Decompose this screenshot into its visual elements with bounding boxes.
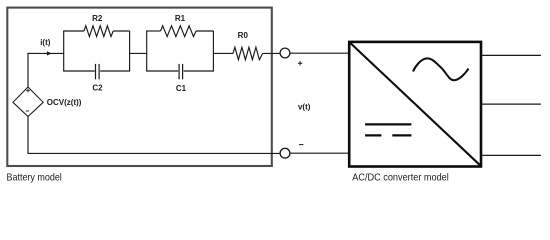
RC block 1 left edge wire: [63, 31, 65, 71]
RC block 1 top wire segments: [63, 30, 84, 32]
node: positive terminal circle: [280, 48, 290, 58]
resistor R1: [161, 26, 197, 37]
resistor R0: [233, 47, 263, 60]
wire: vertical from node A down to OCV source top: [27, 53, 29, 87]
capacitor C2: [96, 64, 100, 79]
AC/DC converter box U1: [349, 42, 481, 167]
svg-text:v(t): v(t): [298, 102, 311, 111]
label - at terminal: [299, 144, 303, 146]
capacitor C1: [179, 64, 183, 79]
label + at terminal: [298, 61, 302, 65]
svg-text:AC/DC converter model: AC/DC converter model: [352, 173, 449, 184]
wire: converter output line 1: [482, 54, 541, 56]
RC block 2 right edge wire: [212, 31, 214, 71]
RC block 2 bottom wire segments: [146, 70, 178, 72]
svg-text:C2: C2: [92, 83, 103, 92]
svg-text:R1: R1: [175, 14, 186, 23]
node: negative terminal circle: [280, 148, 290, 158]
RC block 2 left edge wire: [146, 31, 148, 71]
svg-text:Battery model: Battery model: [7, 173, 62, 184]
wire: bottom return rail to negative terminal: [28, 152, 281, 154]
svg-text:C1: C1: [176, 84, 187, 93]
wire: converter output line 2: [482, 103, 541, 105]
wire: positive terminal to converter: [290, 52, 349, 54]
RC block 1 bottom wire segments: [63, 70, 95, 72]
svg-text:R2: R2: [92, 14, 103, 23]
AC sine symbol: [413, 58, 469, 80]
wire: RC2 to R0: [213, 52, 233, 54]
wire: negative terminal to converter: [290, 152, 349, 154]
wire: RC1 to RC2: [130, 52, 147, 54]
diagonal divider of converter: [349, 42, 481, 166]
RC block 1 right edge wire: [129, 31, 131, 71]
DC symbol solid line: [365, 123, 411, 125]
svg-text:OCV(z(t)): OCV(z(t)): [47, 98, 82, 107]
battery model outer box: [7, 8, 272, 166]
DC symbol dashed line: [365, 134, 381, 136]
plus sign inside source: [26, 89, 30, 93]
minus sign inside source: [26, 110, 29, 112]
svg-text:i(t): i(t): [40, 38, 51, 47]
RC block 2 top wire segments: [146, 30, 160, 32]
wire: from OCV bottom down to return rail: [27, 116, 29, 153]
svg-text:R0: R0: [238, 31, 249, 40]
wire: horizontal main wire from corner to RC block 1 (current path): [28, 52, 64, 54]
voltage source OCV diamond: [13, 87, 43, 117]
wire: R0 to positive terminal: [263, 52, 281, 54]
arrow for current i(t): [47, 51, 52, 55]
wire: converter output line 3: [482, 154, 541, 156]
resistor R2: [84, 26, 113, 37]
